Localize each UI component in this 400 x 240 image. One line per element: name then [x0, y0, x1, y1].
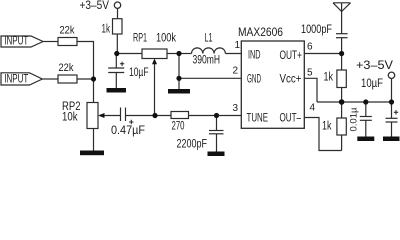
svg-text:1: 1 — [235, 40, 241, 51]
svg-text:22k: 22k — [59, 62, 74, 74]
svg-text:5: 5 — [307, 68, 313, 79]
svg-text:RP1: RP1 — [133, 33, 147, 45]
svg-text:10µF: 10µF — [361, 78, 383, 90]
svg-text:OUT+: OUT+ — [280, 50, 303, 62]
svg-text:10µF: 10µF — [129, 67, 149, 79]
svg-text:2200pF: 2200pF — [177, 139, 208, 151]
svg-text:INPUT: INPUT — [4, 33, 28, 47]
svg-text:1k: 1k — [324, 72, 334, 84]
svg-text:4: 4 — [310, 103, 316, 114]
svg-text:IND: IND — [248, 50, 261, 62]
svg-text:1000pF: 1000pF — [301, 24, 332, 36]
svg-text:2: 2 — [233, 66, 239, 77]
svg-text:10k: 10k — [62, 112, 78, 124]
svg-text:22k: 22k — [60, 25, 75, 37]
svg-text:L1: L1 — [205, 33, 213, 45]
svg-text:0.47µF: 0.47µF — [111, 125, 145, 137]
svg-text:0.01µ: 0.01µ — [349, 107, 360, 132]
svg-text:GND: GND — [247, 74, 261, 86]
svg-text:OUT–: OUT– — [280, 113, 302, 125]
svg-text:+3–5V: +3–5V — [356, 60, 393, 72]
svg-text:390mH: 390mH — [193, 55, 221, 67]
svg-text:1k: 1k — [322, 121, 332, 133]
svg-text:Vcc+: Vcc+ — [280, 74, 302, 86]
svg-text:1k: 1k — [102, 24, 111, 36]
svg-text:270: 270 — [172, 121, 185, 133]
svg-text:+3–5V: +3–5V — [80, 0, 110, 12]
svg-text:3: 3 — [233, 103, 239, 114]
svg-text:100k: 100k — [156, 33, 176, 45]
svg-text:TUNE: TUNE — [247, 113, 269, 125]
svg-text:INPUT: INPUT — [4, 72, 28, 86]
svg-text:6: 6 — [307, 42, 313, 53]
svg-text:MAX2606: MAX2606 — [238, 27, 283, 39]
